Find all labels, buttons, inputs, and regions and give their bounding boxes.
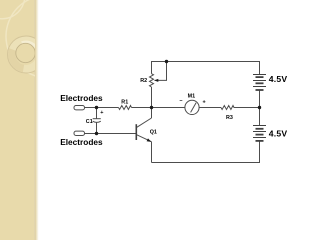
svg-text:R2: R2 [140,78,147,84]
transistor Q1 base bar [135,124,137,140]
wire: base rail electrode2 to Q1 base [85,133,137,135]
wire: R1 to node B [132,107,152,109]
svg-text:+: + [100,110,103,116]
wire: battery1 bottom lead to node C [259,90,261,108]
junction node B (R1/R2/Q1 collector/meter) [150,106,153,109]
svg-text:4.5V: 4.5V [269,74,288,84]
wire: R3 to battery column [235,107,260,109]
svg-text:M1: M1 [188,94,196,100]
wire: mid rail electrode1 to R1 [85,107,119,109]
Q1 emitter arrowhead [147,138,152,142]
electrode pill 1 [74,106,85,110]
svg-text:−: − [179,99,182,105]
wire: top rail [152,62,260,75]
wire: R2 wiper to top rail [157,62,167,81]
junction node A (electrode1/C1) [95,106,98,109]
battery B2 plates [253,126,266,141]
electrode pill 2 [74,131,85,135]
junction node D (electrode2/C1/base) [95,132,98,135]
meter M1 circle [185,100,199,114]
resistor R3 [221,106,235,110]
wire: bottom rail [152,141,260,163]
wire: battery2 top lead [259,108,261,126]
wire: node B to meter [152,107,185,109]
wire: meter to R3 [199,107,221,109]
svg-text:R1: R1 [121,100,128,106]
potentiometer R2 body [150,74,154,87]
meter M1 needle [191,103,197,113]
svg-text:Electrodes: Electrodes [60,137,103,147]
resistor R1 [119,106,132,110]
transistor Q1 emitter diagonal [137,135,152,142]
svg-text:4.5V: 4.5V [269,129,288,139]
transistor Q1 collector diagonal [137,118,152,127]
svg-text:+: + [203,100,206,106]
svg-text:Q1: Q1 [150,129,157,135]
svg-text:Electrodes: Electrodes [60,93,103,103]
capacitor C1 bottom plate (curved) [93,121,101,122]
wire: R2 bottom lead [151,87,153,108]
wire: C1 top lead [96,108,98,119]
junction node C (R3/battery) [258,106,261,109]
battery B1 plates [253,75,266,91]
junction node E (wiper/top rail) [165,60,168,63]
svg-text:C1: C1 [86,119,93,125]
capacitor C1 top plate [93,118,101,120]
wire: collector lead [151,108,153,119]
R2 wiper arrowhead [154,79,158,82]
wire: emitter lead down [151,142,153,163]
wire: C1 bottom lead [96,122,98,134]
svg-text:R3: R3 [226,115,233,121]
